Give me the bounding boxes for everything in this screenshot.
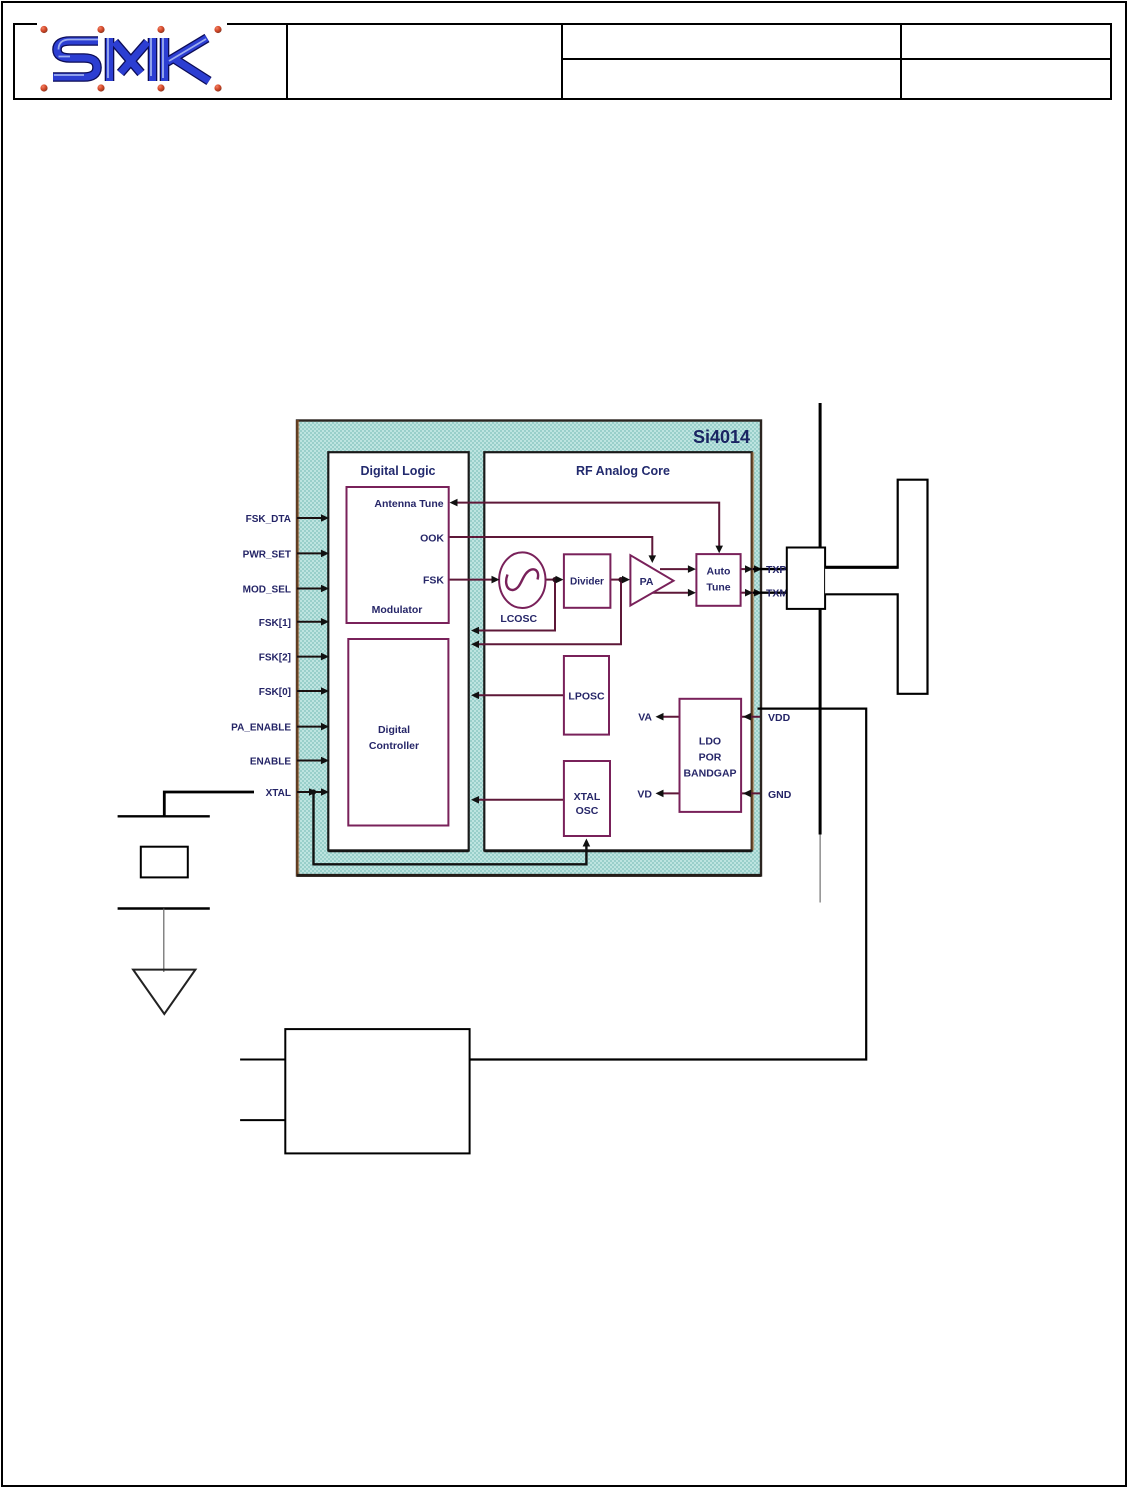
- svg-text:TXP: TXP: [766, 564, 786, 576]
- svg-text:LDO: LDO: [699, 736, 721, 748]
- svg-text:OSC: OSC: [576, 805, 599, 817]
- svg-text:FSK[0]: FSK[0]: [259, 687, 291, 698]
- svg-text:ENABLE: ENABLE: [250, 757, 291, 768]
- svg-text:PWR_SET: PWR_SET: [243, 549, 291, 560]
- svg-text:Tune: Tune: [706, 582, 730, 594]
- svg-text:FSK[2]: FSK[2]: [259, 653, 291, 664]
- svg-text:RF Analog Core: RF Analog Core: [576, 464, 670, 478]
- svg-text:LPOSC: LPOSC: [568, 691, 605, 703]
- svg-text:FSK: FSK: [423, 575, 444, 587]
- svg-text:PA_ENABLE: PA_ENABLE: [231, 723, 291, 734]
- svg-text:XTAL: XTAL: [574, 791, 601, 803]
- svg-text:MOD_SEL: MOD_SEL: [243, 585, 291, 596]
- svg-text:BANDGAP: BANDGAP: [683, 768, 736, 780]
- svg-text:Antenna Tune: Antenna Tune: [374, 498, 443, 510]
- svg-text:Divider: Divider: [570, 577, 604, 588]
- svg-text:POR: POR: [699, 752, 722, 764]
- svg-text:Modulator: Modulator: [372, 604, 423, 616]
- svg-text:XTAL: XTAL: [266, 788, 291, 799]
- svg-text:Digital Logic: Digital Logic: [361, 464, 436, 478]
- svg-text:FSK[1]: FSK[1]: [259, 618, 291, 629]
- svg-text:VA: VA: [638, 712, 652, 724]
- svg-text:Auto: Auto: [707, 566, 731, 578]
- svg-text:Digital: Digital: [378, 724, 410, 736]
- svg-text:GND: GND: [768, 789, 792, 801]
- svg-text:LCOSC: LCOSC: [500, 613, 537, 625]
- svg-text:FSK_DTA: FSK_DTA: [246, 514, 291, 525]
- svg-text:PA: PA: [640, 576, 654, 588]
- svg-text:Controller: Controller: [369, 740, 419, 752]
- svg-text:TXM: TXM: [766, 588, 788, 600]
- svg-text:OOK: OOK: [420, 533, 444, 545]
- svg-text:Si4014: Si4014: [693, 427, 750, 447]
- svg-text:VD: VD: [637, 789, 652, 801]
- svg-text:VDD: VDD: [768, 712, 791, 724]
